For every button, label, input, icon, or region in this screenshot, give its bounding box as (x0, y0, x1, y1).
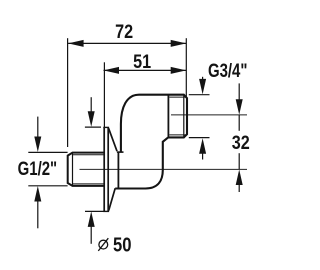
32 dimension mid segment lower (238, 153, 240, 169)
G3/4 thread root line top (169, 96, 187, 98)
shoulder between body and G3/4 thread (167, 95, 169, 138)
centerline of G3/4 outlet (171, 114, 247, 116)
G1/2 thread outline (68, 153, 104, 186)
G1/2 tick top (28, 151, 67, 153)
G3/4 thread root line bottom (169, 134, 187, 136)
G3/4 leader arrow upper (down) (202, 77, 204, 89)
G3/4 tick bottom (189, 137, 210, 139)
G1/2 thread chamfer line (72, 153, 74, 186)
G3/4 tick top (189, 94, 210, 96)
rosette plate top cap (103, 126, 109, 128)
dimension line 51 (104, 69, 187, 71)
extension line right (thread tip G3/4) (185, 38, 187, 98)
diameter symbol (99, 240, 108, 249)
32 dimension mid segment upper (238, 115, 240, 131)
rosette plate outer face (103, 127, 105, 211)
extension line rosette face (103, 62, 105, 128)
centerline of G1/2 inlet (80, 168, 248, 170)
dia50 leader arrow lower (up) (90, 218, 92, 244)
svg-text:G3/4": G3/4" (208, 60, 248, 82)
dia50 leader arrow upper (down) (90, 97, 92, 121)
svg-text:72: 72 (115, 21, 133, 43)
G1/2 thread root line top (73, 154, 104, 156)
G1/2 leader arrow upper (down) (37, 117, 39, 147)
arrow 72 left (68, 40, 84, 47)
dimension line 72 (68, 42, 186, 44)
G3/4 leader arrow lower (up) (202, 146, 204, 160)
svg-text:32: 32 (232, 132, 250, 154)
G1/2 thread root line bottom (73, 183, 104, 185)
cone neck end edge (117, 152, 119, 188)
notch foot at pipe top (117, 151, 124, 153)
G1/2 tick bottom (28, 185, 67, 187)
rosette cone top slant (109, 128, 117, 151)
arrow 51 left (104, 67, 120, 74)
arrow 72 right (171, 40, 187, 47)
32 dimension lower shaft + arrow (up) (238, 176, 240, 193)
body outline: left edge, elbow, top edge and G3/4 thread crest with tip chamfers (121, 95, 187, 152)
G1/2 leader arrow lower (up) (37, 192, 39, 228)
svg-text:51: 51 (133, 51, 151, 73)
rosette cone bottom slant (109, 188, 116, 210)
arrow 51 right (171, 67, 187, 74)
G3/4 thread chamfer line (183, 95, 185, 137)
rosette plate bottom cap (103, 210, 109, 212)
rosette plate inner face (107, 127, 109, 211)
extension line left (thread tip G1/2) (67, 38, 69, 147)
dia50 tick bottom (85, 210, 104, 212)
svg-text:G1/2": G1/2" (18, 158, 58, 180)
svg-text:50: 50 (113, 235, 132, 257)
S-bend outer contour below thread (115, 138, 168, 189)
32 dimension upper shaft + arrow (down) (238, 83, 240, 109)
dia50 tick top (85, 126, 101, 128)
